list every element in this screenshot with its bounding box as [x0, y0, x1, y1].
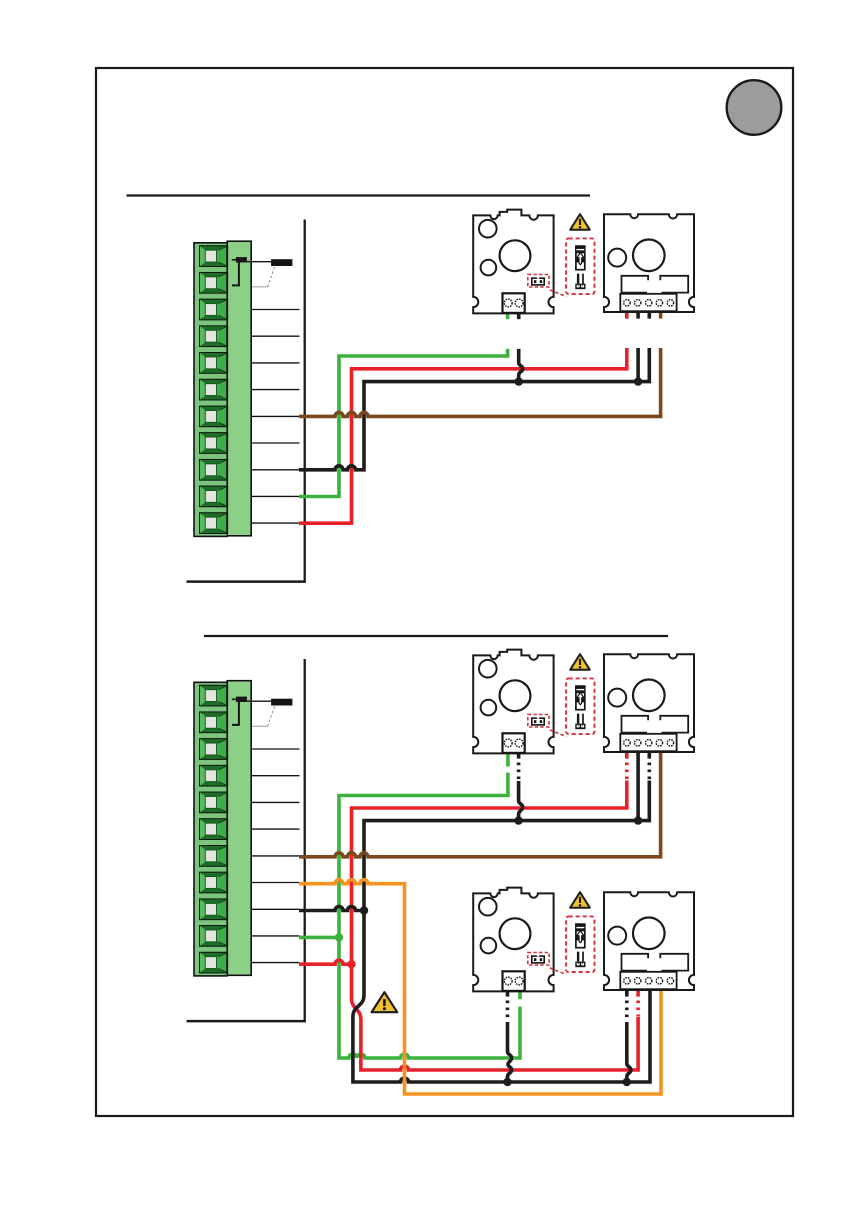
pin stub green	[506, 314, 510, 320]
wire black: speaker 1 drop with hop	[519, 781, 523, 821]
junction dot black bus1 right	[634, 816, 642, 824]
speaker unit pair2	[473, 888, 553, 992]
section 1 rule	[127, 194, 591, 196]
wire black: power 2 pin1 stub	[625, 991, 629, 997]
wire green: speaker 1 stub	[506, 753, 510, 766]
jumper instructions icons	[550, 214, 595, 296]
speaker unit U1	[473, 210, 553, 314]
wire red: power 1 pin stub	[625, 753, 629, 759]
wire black: monitor 2 drop with hops	[508, 1022, 512, 1082]
wire green: monitor pin stub	[518, 991, 522, 999]
speaker unit pair1	[473, 650, 553, 754]
jumper icons pair2	[550, 892, 595, 974]
terminal block TB2	[187, 659, 306, 1022]
wire red: power 2 dotted lead	[636, 1001, 640, 1017]
wire black: power 1 pin2 drop	[636, 753, 640, 821]
terminal block TB1	[187, 220, 306, 583]
power unit pair1	[604, 654, 694, 752]
wire red: power 2 pin stub	[636, 991, 640, 997]
junction dot black bus right	[634, 377, 642, 385]
wire black: power 1 pin3 dotted lead	[647, 763, 651, 780]
wire black: speaker unit drop with hop over red	[519, 349, 523, 382]
power unit pair2	[604, 892, 694, 990]
junction dot black bus left	[515, 377, 523, 385]
wire green: terminal 10 to speaker unit	[299, 349, 508, 497]
wire black: monitor 2 dotted lead	[506, 1001, 510, 1021]
wire green: terminal 10 riser junction	[299, 936, 339, 940]
wire red: terminal 11 junction	[299, 960, 352, 964]
junction dot green	[335, 933, 343, 941]
junction dot black riser	[360, 906, 368, 914]
wire orange: terminal 8 to power 2	[299, 880, 661, 1094]
page frame	[96, 68, 793, 1116]
junction dot red	[347, 960, 355, 968]
wire black: monitor 2 stub	[506, 991, 510, 997]
wire black: bus power1 to crossover to bus 2	[353, 781, 650, 1083]
wire black: power 1 pin3 stub	[647, 753, 651, 759]
jumper icons pair1	[550, 654, 595, 736]
warning triangle wiring	[372, 992, 398, 1012]
power unit U2	[604, 214, 694, 312]
pin stub black speaker	[517, 314, 521, 320]
wire red: terminal 11 to power unit	[299, 348, 627, 523]
pin stub black 3	[647, 313, 651, 319]
section 2 rule	[204, 635, 668, 637]
junction dot black bus1 left	[514, 816, 522, 824]
pin stub brown	[659, 313, 663, 319]
wire green: speaker 1 to riser to monitor loop	[339, 773, 520, 1058]
gray circle marker	[727, 80, 782, 135]
wire black: power 2 pin1 dotted lead	[625, 1001, 629, 1021]
wire brown: terminal 7 to power 1	[299, 753, 661, 857]
junction dot black bus2 right	[623, 1078, 631, 1086]
wire red: power 1 dotted lead	[625, 763, 629, 780]
wire black: speaker 1 dotted lead	[517, 763, 521, 781]
pin stub red	[625, 313, 629, 319]
wire red: power 1 riser crossover to power 2	[352, 781, 639, 1071]
wire black: power unit drop	[636, 348, 640, 382]
wire black: power 2 pin1 drop with hop	[627, 1022, 631, 1082]
wire brown: terminal 7 to power unit	[299, 348, 661, 416]
pin stub black 2	[636, 313, 640, 319]
junction dot black bus2 left	[503, 1078, 511, 1086]
wire black: speaker 1 stub	[517, 753, 521, 759]
wire black: terminal 9 bus	[299, 348, 649, 470]
wire black: terminal 9 lead	[299, 907, 364, 911]
